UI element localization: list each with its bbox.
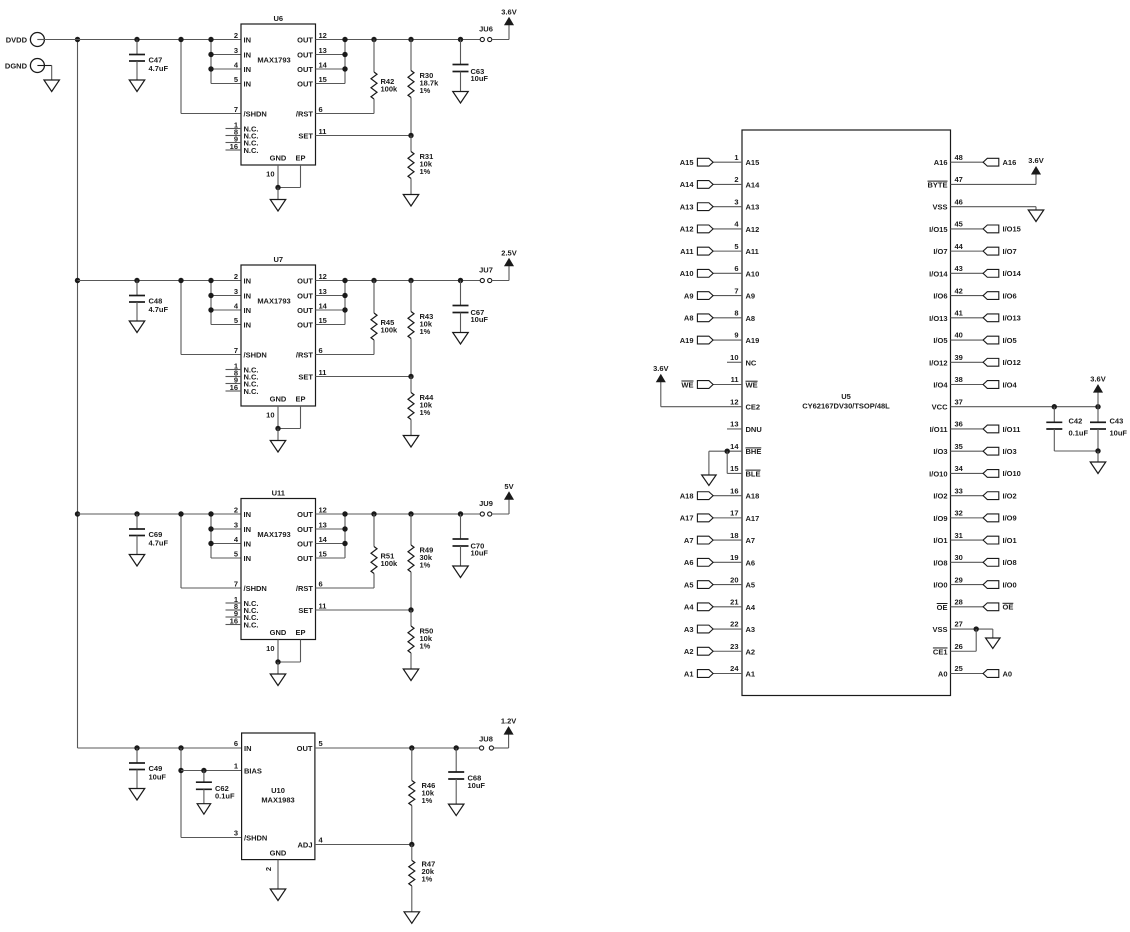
ground for C63 (453, 92, 469, 104)
svg-text:I/O2: I/O2 (933, 492, 947, 501)
svg-text:A19: A19 (680, 336, 694, 345)
capacitor C47 4.7uF (129, 37, 169, 80)
svg-text:I/O9: I/O9 (933, 514, 947, 523)
wire JU7 to 2.5V (492, 266, 509, 281)
svg-text:I/O11: I/O11 (930, 425, 948, 434)
svg-text:A17: A17 (746, 514, 760, 523)
svg-text:A3: A3 (746, 625, 756, 634)
svg-text:16: 16 (230, 383, 238, 392)
svg-text:A15: A15 (746, 158, 760, 167)
svg-text:18: 18 (730, 531, 738, 540)
op-amp regulator IC U11 MAX1793 (226, 489, 328, 654)
svg-text:I/O9: I/O9 (1003, 514, 1017, 523)
resistor R47 20k (409, 845, 435, 912)
svg-text:3.6V: 3.6V (501, 8, 516, 17)
svg-text:I/O1: I/O1 (933, 536, 947, 545)
svg-text:/RST: /RST (296, 110, 314, 119)
node WE (pin 11) (681, 380, 742, 389)
svg-text:I/O10: I/O10 (1003, 469, 1021, 478)
pin 13 DNU stub (727, 428, 742, 430)
svg-text:22: 22 (730, 620, 738, 629)
svg-text:15: 15 (319, 550, 327, 559)
svg-text:15: 15 (319, 75, 327, 84)
power port DGND (5, 59, 52, 81)
wire /SHDN feed U11 (178, 511, 241, 588)
svg-text:N.C.: N.C. (244, 146, 259, 155)
ground for U6 (270, 200, 286, 212)
svg-text:SET: SET (298, 132, 313, 141)
svg-text:45: 45 (955, 220, 963, 229)
svg-text:3.6V: 3.6V (653, 364, 668, 373)
svg-text:21: 21 (730, 598, 738, 607)
resistor R46 10k (409, 745, 435, 844)
svg-text:BLE: BLE (746, 469, 761, 478)
capacitor C68 10uF (448, 745, 485, 804)
svg-text:I/O14: I/O14 (1003, 269, 1022, 278)
svg-text:36: 36 (955, 420, 963, 429)
svg-text:12: 12 (730, 397, 738, 406)
svg-text:1%: 1% (420, 642, 431, 651)
wire SET of U6 (316, 133, 414, 138)
svg-text:0.1uF: 0.1uF (1069, 429, 1089, 438)
ground for U10 (270, 889, 286, 901)
svg-text:3: 3 (234, 287, 238, 296)
svg-text:I/O0: I/O0 (1003, 580, 1017, 589)
U5 left pin names and numbers (730, 153, 762, 679)
svg-text:BHE: BHE (746, 447, 762, 456)
svg-text:I/O5: I/O5 (933, 336, 947, 345)
svg-text:DVDD: DVDD (6, 35, 28, 44)
wire CE2 (pin 12) to 3.6V (661, 382, 742, 407)
power port DVDD (6, 33, 45, 47)
resistor R30 18.7k (408, 37, 439, 136)
svg-text:3: 3 (234, 46, 238, 55)
node A11 (pin 5) (680, 247, 742, 256)
node IN tree U7 (208, 278, 241, 325)
svg-text:31: 31 (955, 531, 963, 540)
svg-text:10: 10 (266, 644, 274, 653)
svg-text:A10: A10 (746, 269, 760, 278)
svg-text:DGND: DGND (5, 61, 28, 70)
node A0 (pin 25) (951, 669, 1013, 678)
svg-text:OUT: OUT (297, 306, 313, 315)
node A3 (pin 22) (684, 625, 742, 634)
svg-text:/RST: /RST (296, 351, 314, 360)
node I/O5 (pin 40) (951, 336, 1017, 345)
svg-text:A14: A14 (746, 180, 761, 189)
wire OUT rail U11 (316, 513, 481, 515)
node A9 (pin 7) (684, 291, 742, 300)
svg-text:I/O4: I/O4 (933, 381, 948, 390)
svg-text:5: 5 (234, 550, 238, 559)
svg-text:CE2: CE2 (746, 403, 761, 412)
node A2 (pin 23) (684, 647, 742, 656)
svg-text:I/O8: I/O8 (933, 558, 947, 567)
svg-text:16: 16 (230, 142, 238, 151)
svg-text:14: 14 (319, 535, 328, 544)
node OUT tree U11 (316, 511, 348, 558)
node A19 (pin 9) (680, 336, 742, 345)
svg-text:A3: A3 (684, 625, 694, 634)
resistor R42 100k (316, 37, 399, 114)
svg-text:2: 2 (734, 175, 738, 184)
node I/O13 (pin 41) (951, 314, 1021, 323)
ground for C67 (453, 333, 469, 345)
svg-text:6: 6 (319, 105, 323, 114)
svg-text:IN: IN (244, 277, 252, 286)
svg-text:I/O15: I/O15 (929, 225, 947, 234)
capacitor C63 10uF (453, 37, 489, 92)
svg-text:JU9: JU9 (479, 499, 493, 508)
svg-text:11: 11 (319, 368, 327, 377)
svg-text:2.5V: 2.5V (501, 249, 516, 258)
svg-text:17: 17 (730, 509, 738, 518)
svg-text:JU6: JU6 (479, 25, 493, 34)
ground for C68 (448, 804, 464, 816)
wire GND/EP of U7 to ground (275, 406, 300, 441)
power 3.6V (501, 8, 516, 26)
ground for C69 (129, 555, 145, 567)
wire /SHDN feed U6 (178, 37, 241, 114)
svg-text:A4: A4 (746, 603, 756, 612)
svg-text:24: 24 (730, 664, 739, 673)
svg-text:40: 40 (955, 331, 963, 340)
svg-text:VCC: VCC (932, 403, 948, 412)
wire SET of U11 (316, 607, 414, 612)
svg-text:I/O14: I/O14 (929, 269, 948, 278)
ground for C49 (129, 789, 145, 801)
svg-text:N.C.: N.C. (244, 621, 259, 630)
svg-text:WE: WE (746, 381, 758, 390)
svg-text:OUT: OUT (297, 65, 313, 74)
wire OUT rail U6 (316, 39, 481, 41)
resistor R51 100k (316, 511, 399, 588)
jumper JU6 (479, 25, 493, 42)
svg-text:4.7uF: 4.7uF (149, 64, 169, 73)
svg-text:CE1: CE1 (933, 647, 948, 656)
svg-text:A1: A1 (746, 669, 756, 678)
svg-text:A9: A9 (684, 291, 694, 300)
svg-text:IN: IN (244, 554, 252, 563)
svg-text:7: 7 (234, 346, 238, 355)
svg-text:I/O6: I/O6 (1003, 291, 1017, 300)
wire 5V input rail (78, 513, 242, 515)
wire U10 OUT rail (315, 747, 480, 749)
svg-text:1%: 1% (420, 327, 431, 336)
wire VCC (pin 37) rail (951, 404, 1101, 409)
svg-text:I/O12: I/O12 (929, 358, 947, 367)
svg-text:A8: A8 (746, 314, 756, 323)
wire U10 ADJ (315, 842, 415, 847)
svg-text:35: 35 (955, 442, 963, 451)
svg-text:29: 29 (955, 575, 963, 584)
node I/O14 (pin 43) (951, 269, 1022, 278)
svg-text:10uF: 10uF (471, 549, 489, 558)
svg-text:A6: A6 (746, 558, 756, 567)
svg-text:A1: A1 (684, 669, 694, 678)
svg-text:44: 44 (955, 242, 964, 251)
svg-text:6: 6 (734, 264, 738, 273)
svg-text:26: 26 (955, 642, 963, 651)
svg-text:IN: IN (244, 744, 252, 753)
svg-text:13: 13 (319, 46, 327, 55)
op-amp regulator IC U6 MAX1793 (226, 14, 328, 179)
svg-text:I/O6: I/O6 (933, 292, 947, 301)
svg-text:IN: IN (244, 80, 252, 89)
svg-text:IN: IN (244, 510, 252, 519)
svg-text:16: 16 (230, 616, 238, 625)
wire JU9 to 5V (492, 500, 509, 515)
pin 10 NC stub (727, 361, 742, 363)
svg-text:IN: IN (244, 51, 252, 60)
jumper JU8 (479, 735, 493, 751)
svg-text:1%: 1% (420, 561, 431, 570)
node A15 (pin 1) (680, 158, 742, 167)
svg-text:A7: A7 (684, 536, 694, 545)
svg-text:A13: A13 (680, 202, 694, 211)
wire VSS (pin 27) and CE1 (pin 26) to ground (951, 626, 993, 651)
node A7 (pin 18) (684, 536, 742, 545)
svg-text:5V: 5V (504, 482, 513, 491)
svg-text:WE: WE (681, 380, 693, 389)
ground for R47 (404, 912, 420, 924)
node I/O10 (pin 34) (951, 469, 1021, 478)
svg-text:16: 16 (730, 486, 738, 495)
svg-text:IN: IN (244, 525, 252, 534)
wire 2.5V input rail (78, 280, 242, 282)
svg-text:14: 14 (730, 442, 739, 451)
memory IC U5 CY62167DV30/TSOP/48L (742, 130, 951, 696)
svg-text:15: 15 (730, 464, 738, 473)
svg-text:IN: IN (244, 321, 252, 330)
svg-text:12: 12 (319, 31, 327, 40)
node A5 (pin 20) (684, 580, 742, 589)
wire BYTE (pin 47) to 3.6V (951, 174, 1037, 184)
node I/O0 (pin 29) (951, 580, 1017, 589)
svg-text:A5: A5 (684, 580, 694, 589)
svg-text:1: 1 (734, 153, 738, 162)
svg-text:I/O1: I/O1 (1003, 536, 1017, 545)
jumper JU7 (479, 266, 493, 283)
node A6 (pin 19) (684, 558, 742, 567)
node IN tree U11 (208, 511, 241, 558)
svg-text:C42: C42 (1069, 417, 1083, 426)
wire GND/EP of U11 to ground (275, 640, 300, 675)
svg-text:I/O0: I/O0 (933, 581, 947, 590)
resistor R43 10k (408, 278, 433, 377)
wire bus to U10 IN (78, 747, 242, 749)
svg-text:23: 23 (730, 642, 738, 651)
svg-text:I/O7: I/O7 (1003, 247, 1017, 256)
op-amp regulator IC U7 MAX1793 (226, 255, 328, 420)
svg-text:7: 7 (234, 580, 238, 589)
power 5V (504, 482, 513, 500)
node IN tree U6 (208, 37, 241, 84)
svg-text:MAX1793: MAX1793 (257, 297, 290, 306)
svg-text:A18: A18 (680, 491, 694, 500)
svg-text:38: 38 (955, 375, 963, 384)
svg-text:A16: A16 (934, 158, 948, 167)
svg-text:3.6V: 3.6V (1090, 375, 1105, 384)
svg-text:15: 15 (319, 316, 327, 325)
svg-text:MAX1983: MAX1983 (261, 796, 294, 805)
wire SET of U7 (316, 374, 414, 379)
wire OUT rail U7 (316, 280, 481, 282)
svg-text:5: 5 (234, 75, 238, 84)
svg-text:/SHDN: /SHDN (244, 351, 267, 360)
ground for U7 (270, 441, 286, 453)
svg-text:BYTE: BYTE (927, 180, 947, 189)
svg-text:12: 12 (319, 506, 327, 515)
wire DVDD vertical bus (75, 37, 80, 748)
node I/O3 (pin 35) (951, 447, 1017, 456)
svg-text:NC: NC (746, 358, 757, 367)
svg-text:EP: EP (295, 154, 305, 163)
svg-text:3: 3 (234, 521, 238, 530)
svg-text:10: 10 (730, 353, 738, 362)
svg-text:A12: A12 (746, 225, 760, 234)
node A12 (pin 4) (680, 225, 742, 234)
svg-text:A12: A12 (680, 225, 694, 234)
power 3.6V at CE2 (653, 364, 668, 382)
svg-text:0.1uF: 0.1uF (215, 792, 235, 801)
node OE (pin 28) (951, 603, 1014, 612)
svg-text:27: 27 (955, 620, 963, 629)
node A16 (pin 48) (951, 158, 1017, 167)
svg-text:10: 10 (266, 170, 274, 179)
svg-text:48: 48 (955, 153, 963, 162)
node I/O6 (pin 42) (951, 291, 1017, 300)
svg-text:10uF: 10uF (1110, 429, 1128, 438)
svg-text:JU7: JU7 (479, 266, 493, 275)
ground for R50 (403, 669, 419, 681)
svg-text:MAX1793: MAX1793 (257, 56, 290, 65)
regulator IC U10 MAX1983 (234, 733, 324, 871)
svg-text:25: 25 (955, 664, 963, 673)
svg-text:30: 30 (955, 553, 963, 562)
svg-text:I/O11: I/O11 (1003, 425, 1021, 434)
svg-text:OE: OE (1003, 603, 1014, 612)
svg-text:OUT: OUT (297, 510, 313, 519)
wire BIAS and /SHDN feed (178, 745, 241, 837)
svg-text:DNU: DNU (746, 425, 762, 434)
svg-text:41: 41 (955, 309, 963, 318)
svg-text:A15: A15 (680, 158, 694, 167)
svg-text:1.2V: 1.2V (501, 717, 516, 726)
ground for C42/C43 (1090, 462, 1106, 474)
svg-text:1%: 1% (420, 86, 431, 95)
svg-text:1%: 1% (422, 796, 433, 805)
svg-text:10: 10 (266, 411, 274, 420)
svg-text:I/O13: I/O13 (929, 314, 947, 323)
svg-text:5: 5 (234, 316, 238, 325)
node A17 (pin 17) (680, 514, 742, 523)
svg-text:I/O8: I/O8 (1003, 558, 1017, 567)
svg-text:U7: U7 (273, 255, 283, 264)
jumper JU9 (479, 499, 493, 516)
svg-text:I/O3: I/O3 (1003, 447, 1017, 456)
svg-text:10uF: 10uF (149, 773, 167, 782)
svg-text:I/O15: I/O15 (1003, 225, 1021, 234)
svg-text:19: 19 (730, 553, 738, 562)
node I/O11 (pin 36) (951, 425, 1021, 434)
svg-text:I/O5: I/O5 (1003, 336, 1017, 345)
resistor R44 10k (408, 377, 434, 436)
ground for R31 (403, 195, 419, 207)
capacitor C43 10uF (1090, 407, 1127, 462)
svg-text:VSS: VSS (932, 625, 947, 634)
node I/O8 (pin 30) (951, 558, 1017, 567)
svg-text:GND: GND (270, 849, 287, 858)
ground for BHE/BLE (702, 475, 717, 486)
svg-text:28: 28 (955, 598, 963, 607)
svg-text:6: 6 (234, 739, 238, 748)
svg-text:9: 9 (734, 331, 738, 340)
ground for C48 (129, 321, 145, 333)
svg-text:33: 33 (955, 486, 963, 495)
svg-text:EP: EP (295, 628, 305, 637)
svg-text:I/O2: I/O2 (1003, 491, 1017, 500)
node A18 (pin 16) (680, 491, 742, 500)
node A4 (pin 21) (684, 603, 742, 612)
svg-text:SET: SET (298, 606, 313, 615)
svg-text:8: 8 (734, 309, 738, 318)
svg-text:47: 47 (955, 175, 963, 184)
svg-text:A13: A13 (746, 203, 760, 212)
wire U10 GND to ground (277, 860, 279, 889)
svg-text:10uF: 10uF (468, 781, 486, 790)
svg-text:A19: A19 (746, 336, 760, 345)
svg-text:A17: A17 (680, 514, 694, 523)
svg-text:6: 6 (319, 580, 323, 589)
svg-text:5: 5 (734, 242, 738, 251)
svg-text:I/O7: I/O7 (933, 247, 947, 256)
svg-text:I/O10: I/O10 (929, 469, 947, 478)
ground for R44 (403, 436, 419, 448)
svg-text:A2: A2 (684, 647, 694, 656)
wire BHE/BLE (pins 14,15) to ground (709, 448, 742, 475)
svg-text:OUT: OUT (297, 321, 313, 330)
svg-text:MAX1793: MAX1793 (257, 530, 290, 539)
node I/O12 (pin 39) (951, 358, 1021, 367)
node I/O15 (pin 45) (951, 225, 1021, 234)
svg-text:1%: 1% (420, 408, 431, 417)
svg-text:I/O13: I/O13 (1003, 314, 1021, 323)
node OUT tree U7 (316, 278, 348, 325)
svg-text:3: 3 (734, 197, 738, 206)
svg-text:4.7uF: 4.7uF (149, 539, 169, 548)
svg-text:OE: OE (937, 603, 948, 612)
svg-text:A4: A4 (684, 603, 694, 612)
svg-text:10uF: 10uF (471, 74, 489, 83)
ground for DGND (44, 80, 60, 92)
svg-text:43: 43 (955, 264, 963, 273)
svg-text:A6: A6 (684, 558, 694, 567)
svg-text:GND: GND (270, 154, 287, 163)
capacitor C48 4.7uF (129, 278, 169, 321)
power 3.6V at VCC (1090, 375, 1105, 407)
svg-text:100k: 100k (381, 326, 399, 335)
wire GND/EP of U6 to ground (275, 165, 300, 200)
node A14 (pin 2) (680, 180, 742, 189)
node I/O4 (pin 38) (951, 380, 1018, 389)
svg-text:39: 39 (955, 353, 963, 362)
svg-text:/SHDN: /SHDN (244, 110, 267, 119)
svg-text:32: 32 (955, 509, 963, 518)
svg-text:4.7uF: 4.7uF (149, 305, 169, 314)
svg-text:/RST: /RST (296, 584, 314, 593)
svg-text:7: 7 (234, 105, 238, 114)
